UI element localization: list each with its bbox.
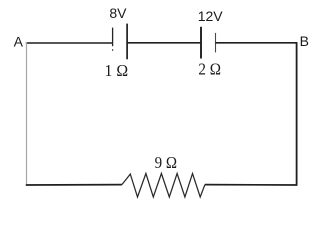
svg-text:9 Ω: 9 Ω — [155, 153, 177, 172]
svg-text:2 Ω: 2 Ω — [198, 60, 221, 79]
resistor R 9 ohm zigzag — [122, 174, 205, 198]
wire left vertical (grey) — [26, 42, 28, 185]
wire between batteries — [127, 42, 201, 44]
svg-text:8V: 8V — [109, 5, 127, 21]
wire bottom-left to resistor — [26, 184, 122, 186]
wire right vertical — [296, 42, 298, 185]
battery V1 8V short plate dot — [112, 49, 114, 51]
battery V1 8V long plate (right, positive) — [126, 24, 128, 60]
svg-text:1 Ω: 1 Ω — [105, 61, 129, 80]
svg-text:12V: 12V — [198, 8, 224, 24]
wire top-left: A to battery 8V — [26, 42, 113, 44]
wire battery 12V to B corner — [216, 42, 298, 44]
battery V1 8V short plate (left, negative) — [112, 28, 114, 47]
svg-text:B: B — [300, 33, 309, 49]
svg-text:A: A — [14, 33, 24, 49]
battery V2 12V short plate (right, negative) — [215, 33, 217, 53]
wire resistor to bottom-right — [205, 184, 298, 186]
battery V2 12V long plate (left, positive) — [200, 27, 202, 59]
